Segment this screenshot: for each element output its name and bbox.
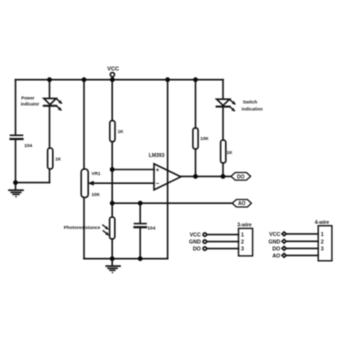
svg-text:2: 2 bbox=[241, 239, 244, 245]
svg-text:+: + bbox=[156, 167, 160, 174]
svg-text:Power: Power bbox=[21, 95, 34, 100]
svg-text:1: 1 bbox=[321, 232, 324, 238]
svg-text:10K: 10K bbox=[200, 136, 209, 141]
svg-text:AO: AO bbox=[272, 253, 280, 259]
svg-text:DO: DO bbox=[193, 247, 201, 253]
svg-text:1K: 1K bbox=[118, 129, 125, 134]
svg-text:1K: 1K bbox=[227, 150, 234, 155]
svg-text:VCC: VCC bbox=[107, 67, 119, 73]
svg-text:3: 3 bbox=[241, 246, 244, 252]
svg-text:Switch: Switch bbox=[243, 100, 258, 105]
svg-text:VR1: VR1 bbox=[92, 171, 101, 176]
svg-text:104: 104 bbox=[147, 225, 155, 231]
svg-text:indicator: indicator bbox=[21, 102, 40, 107]
svg-text:2: 2 bbox=[321, 239, 324, 245]
svg-text:3-wire: 3-wire bbox=[237, 222, 252, 228]
svg-text:Photoresistance: Photoresistance bbox=[64, 225, 101, 230]
svg-text:DO: DO bbox=[237, 174, 245, 180]
svg-text:indication: indication bbox=[242, 107, 264, 112]
svg-text:GND: GND bbox=[269, 239, 281, 245]
svg-text:1: 1 bbox=[241, 232, 244, 238]
svg-text:104: 104 bbox=[24, 143, 32, 149]
svg-text:VCC: VCC bbox=[269, 232, 280, 238]
svg-text:10K: 10K bbox=[92, 192, 101, 197]
svg-text:3: 3 bbox=[321, 246, 324, 252]
svg-text:AO: AO bbox=[238, 201, 246, 207]
svg-text:1K: 1K bbox=[55, 157, 62, 162]
svg-text:DO: DO bbox=[272, 246, 280, 252]
svg-text:VCC: VCC bbox=[190, 233, 201, 239]
svg-text:GND: GND bbox=[189, 240, 201, 246]
svg-text:4-wire: 4-wire bbox=[315, 220, 330, 226]
svg-text:LM393: LM393 bbox=[149, 153, 165, 159]
svg-text:−: − bbox=[156, 181, 160, 188]
